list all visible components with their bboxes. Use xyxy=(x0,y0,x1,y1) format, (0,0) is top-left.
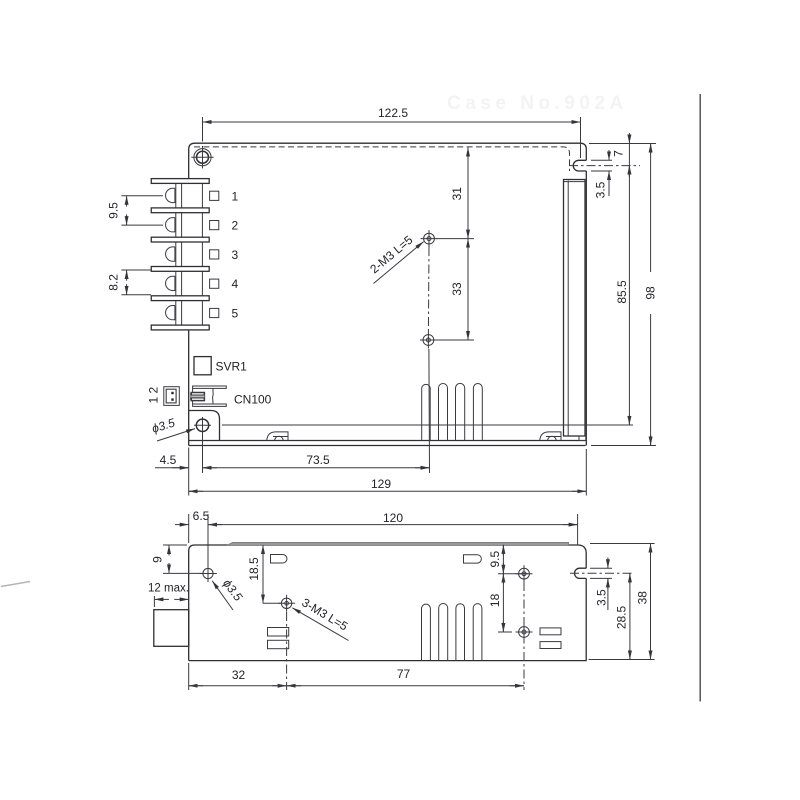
dimension 122.5 xyxy=(203,106,581,158)
bottom view: top slot right xyxy=(464,555,482,563)
dimension 18.5 xyxy=(247,545,281,603)
bottom view: phi3.5 mounting hole xyxy=(200,565,217,582)
svg-text:3.5: 3.5 xyxy=(594,181,608,198)
terminal pin square 5 xyxy=(210,308,219,317)
page divider vertical line right xyxy=(699,94,701,702)
dimension 9 xyxy=(151,545,204,573)
svg-text:5: 5 xyxy=(232,307,239,321)
terminal block: barrier bars xyxy=(151,179,209,330)
svg-text:31: 31 xyxy=(450,187,464,201)
top view: right edge screw slot xyxy=(573,160,586,171)
CN100 connector xyxy=(191,386,227,406)
dimension 73.5 xyxy=(203,431,430,474)
svg-text:1: 1 xyxy=(232,189,239,203)
CN100 mating plug xyxy=(164,387,180,406)
svg-text:12 max.: 12 max. xyxy=(148,583,189,595)
svg-text:3: 3 xyxy=(232,248,239,262)
bottom view: vent slot 3 xyxy=(456,604,465,661)
svg-text:9.5: 9.5 xyxy=(107,202,121,219)
bottom view: label phi3.5 xyxy=(220,577,245,604)
svg-text:Case No.902A: Case No.902A xyxy=(447,93,628,114)
terminal block: screw row 2 xyxy=(166,218,175,232)
center line through right holes xyxy=(523,582,525,690)
dimension 4.5 xyxy=(155,453,217,468)
bottom view: cover plate gray edge xyxy=(227,542,569,545)
bottom view: 3-M3 screw hole xyxy=(278,595,295,612)
svg-text:18: 18 xyxy=(488,593,502,607)
svg-text:32: 32 xyxy=(232,668,246,682)
svg-text:8.2: 8.2 xyxy=(107,274,121,291)
dimension 31 / 33 chain xyxy=(436,148,474,341)
terminal block: screw row 3 xyxy=(166,247,175,261)
dimension 7 xyxy=(589,133,656,177)
svg-text:33: 33 xyxy=(450,282,464,296)
top view: vent slot 1 xyxy=(422,384,431,440)
svg-text:3.5: 3.5 xyxy=(595,589,609,606)
svg-text:28.5: 28.5 xyxy=(615,605,629,629)
bottom view: right edge screw slot xyxy=(575,568,587,578)
top view: vent slot 2 xyxy=(439,384,448,441)
dimension 9.5 terminal xyxy=(107,196,164,225)
top view: bottom-left inner step xyxy=(189,411,220,441)
top view: inner chassis dashed line xyxy=(194,147,570,171)
svg-text:4: 4 xyxy=(232,277,239,291)
bottom view: AC inlet socket xyxy=(154,610,189,647)
bottom view: tab rectangles pair left xyxy=(268,628,289,637)
svg-text:122.5: 122.5 xyxy=(378,106,408,120)
bottom view: vent slot 1 xyxy=(422,604,431,660)
dimension 120 xyxy=(208,511,578,545)
dimension 28.5 xyxy=(615,573,630,659)
terminal pin square 4 xyxy=(210,279,219,288)
svg-text:73.5: 73.5 xyxy=(306,453,330,467)
svg-text:CN100: CN100 xyxy=(234,393,272,407)
top view: mounting hole bottom-left xyxy=(194,417,211,434)
svg-text:9.5: 9.5 xyxy=(488,551,502,568)
bottom view: slot center line xyxy=(570,572,634,574)
dimension 98 xyxy=(591,144,658,446)
terminal pin square 1 xyxy=(210,191,219,200)
terminal block: vertical rails xyxy=(176,183,203,325)
terminal pin square 3 xyxy=(210,250,219,259)
top view: bottom flange strip xyxy=(189,441,587,446)
SVR1 square xyxy=(194,357,211,375)
bottom view: screw hole right top xyxy=(516,565,533,582)
extension line from hole B down to dim xyxy=(428,349,431,473)
leader line phi3.5 bottom xyxy=(212,581,233,610)
top view: heatsink bar xyxy=(564,180,586,441)
top view: vent slot 3 xyxy=(456,383,465,440)
terminal block body mask xyxy=(163,179,209,330)
svg-text:129: 129 xyxy=(371,477,391,491)
svg-text:77: 77 xyxy=(397,667,411,681)
label phi3.5 top view xyxy=(150,415,177,435)
terminal block: screw row 5 xyxy=(166,306,175,320)
top view: vent slot 4 xyxy=(473,384,482,441)
screw hole B (2-M3) xyxy=(420,332,437,349)
dimension 77 xyxy=(287,667,524,686)
terminal block: screw row 1 xyxy=(166,188,175,202)
dimension 8.2 terminal xyxy=(107,270,152,295)
svg-text:85.5: 85.5 xyxy=(615,280,629,304)
svg-text:98: 98 xyxy=(644,286,658,300)
watermark faint diagonal line xyxy=(1,582,30,587)
top view: case outline xyxy=(189,143,587,445)
svg-text:9: 9 xyxy=(151,556,165,563)
svg-text:18.5: 18.5 xyxy=(247,557,261,581)
top view: stamped tab right xyxy=(540,432,561,441)
terminal block: screw row 4 xyxy=(166,276,175,290)
svg-text:4.5: 4.5 xyxy=(160,453,177,467)
svg-text:2: 2 xyxy=(232,219,239,233)
dimension 38 xyxy=(589,544,655,660)
dimension 3.5 top xyxy=(591,150,612,198)
dimension 18 xyxy=(488,574,512,632)
dimension 85.5 xyxy=(222,166,633,425)
dimension 129 xyxy=(189,448,587,496)
top view: stamped tab left xyxy=(267,432,288,441)
center line between holes A and B xyxy=(427,247,430,333)
bottom view: tab rectangles pair right xyxy=(540,628,561,635)
dimension 32 xyxy=(189,663,287,690)
bottom view: case outline xyxy=(189,545,587,661)
bottom view: screw hole right bottom xyxy=(516,624,533,641)
svg-text:38: 38 xyxy=(636,591,650,605)
dimension 3.5 bottom xyxy=(590,558,612,611)
bottom view: top slot left xyxy=(271,555,287,564)
svg-text:SVR1: SVR1 xyxy=(216,360,248,374)
dimension 9.5 bottom xyxy=(488,545,528,574)
dimension 12 max. xyxy=(148,583,189,608)
top view: slot center line xyxy=(569,165,640,167)
svg-text:7: 7 xyxy=(612,150,626,157)
center line below 3-M3 hole xyxy=(286,612,288,690)
screw hole A (2-M3) xyxy=(421,230,438,247)
bottom view: vent slot 4 xyxy=(473,604,482,661)
terminal pin square 2 xyxy=(210,221,219,230)
top view: mounting hole top-left xyxy=(191,146,213,168)
svg-text:120: 120 xyxy=(383,511,403,525)
leader phi3.5 to bottom-left hole xyxy=(157,429,195,441)
svg-text:1 2: 1 2 xyxy=(147,386,161,403)
bottom view: vent slot 2 xyxy=(439,604,448,661)
dimension 6.5 xyxy=(175,509,222,566)
svg-text:6.5: 6.5 xyxy=(193,509,210,523)
